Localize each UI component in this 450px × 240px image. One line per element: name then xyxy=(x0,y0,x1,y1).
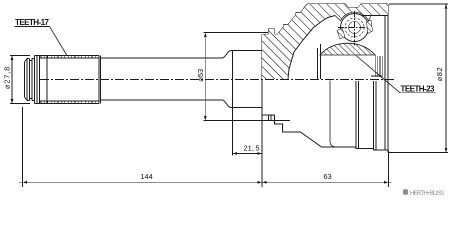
svg-text:HERTH+BUSS: HERTH+BUSS xyxy=(410,190,445,197)
svg-text:63: 63 xyxy=(323,172,331,181)
svg-text:TEETH-23: TEETH-23 xyxy=(401,84,436,93)
svg-text:144: 144 xyxy=(140,172,153,181)
svg-text:⌀82: ⌀82 xyxy=(435,67,444,82)
svg-text:⌀27,8: ⌀27,8 xyxy=(2,66,11,89)
svg-text:⌀53: ⌀53 xyxy=(196,69,205,82)
svg-text:TEETH-17: TEETH-17 xyxy=(15,18,50,27)
svg-text:21, 5: 21, 5 xyxy=(244,144,260,153)
